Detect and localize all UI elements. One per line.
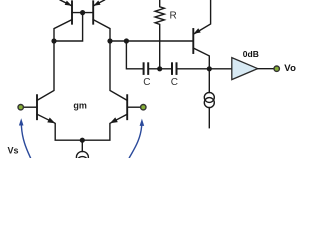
node: rail junction to C1 (124, 38, 129, 43)
node: between C1 and C2 (R tap) (157, 66, 162, 71)
transistor Q4 (left NPN of diff pair): base bar (36, 95, 38, 119)
node: output node (collector / C2 / source / buffer) (207, 66, 212, 71)
transistor Q2 collector wire (93, 20, 110, 41)
svg-text:R: R (170, 11, 177, 22)
wire: left rail down to Q4 collector (37, 41, 54, 100)
capacitor C1 left plate (143, 63, 145, 74)
wire: rail down to capacitor row (126, 41, 142, 69)
terminal input left (green) (18, 105, 23, 110)
wire: C2 to output node (177, 68, 210, 70)
arrow: Vs to left input (blue curved shaft) (21, 125, 30, 157)
resistor R (155, 0, 164, 69)
node: right rail junction (Q2 collector) (107, 38, 112, 43)
node: mirror base junction (80, 10, 85, 15)
wire: right rail down to Q5 collector (110, 41, 127, 100)
current source I2 upper circle (204, 92, 214, 102)
svg-text:gm: gm (73, 101, 87, 111)
node: left rail junction (51, 38, 56, 43)
terminal Vo (green) (274, 66, 279, 71)
wire: left input base (24, 106, 38, 108)
transistor Q1 emitter arrowhead (65, 1, 72, 6)
current source I2 lower circle (204, 98, 214, 108)
transistor Q5 emitter arrowhead (110, 117, 118, 123)
transistor Q4 emitter arrowhead (47, 118, 55, 124)
arrowhead: Vs left arrow (19, 118, 24, 125)
wire: signal rail from Q2 collector to Q3 base (110, 40, 192, 42)
terminal input right (green) (141, 105, 146, 110)
wire: output node to buffer input (209, 68, 232, 70)
svg-text:0dB: 0dB (243, 49, 259, 59)
transistor Q1 emitter wire (from top edge into bar) (60, 0, 71, 5)
node: diff pair tail (80, 138, 85, 143)
wire: buffer output (258, 68, 274, 70)
arrow: Vs to right input (blue curved shaft) (129, 125, 141, 157)
transistor Q2 emitter wire (from top edge into bar) (94, 0, 104, 5)
svg-text:C: C (143, 77, 150, 88)
transistor Q3 emitter wire (up to top edge) (195, 0, 211, 34)
transistor Q2 emitter arrowhead (93, 1, 100, 6)
transistor Q5 (right NPN of diff pair): base bar (126, 95, 128, 119)
wire: right input base (127, 106, 140, 108)
wire: Q1-Q2 base link (72, 12, 93, 14)
op-amp U1: unity-gain buffer triangle (232, 58, 258, 80)
transistor Q5 emitter wire (82, 114, 127, 140)
wire: mirror base down and left to left rail (54, 13, 83, 41)
transistor Q3 emitter arrowhead (194, 28, 201, 34)
transistor Q3 collector wire (193, 48, 209, 69)
transistor Q1 collector wire (54, 20, 72, 41)
wire: I2 bottom lead (208, 108, 210, 128)
svg-text:Vs: Vs (8, 146, 19, 156)
current source I1 (tail) upper circle (76, 151, 88, 163)
wire: tail down to current source I1 (81, 140, 83, 151)
capacitor C2 right plate (176, 63, 178, 74)
capacitor C2 left plate (171, 63, 173, 74)
transistor Q4 emitter wire (37, 114, 82, 140)
wire: node down to current source I2 (208, 69, 210, 93)
capacitor C1 right plate (147, 63, 149, 74)
svg-text:Vo: Vo (284, 63, 296, 74)
arrowhead: Vs right arrow (140, 119, 145, 126)
transistor Q3 (right PNP follower): base bar (192, 29, 194, 53)
transistor Q1 (top-left PNP of current mirror): base bar (71, 1, 73, 23)
transistor Q2 (top-right PNP of current mirror): base bar (92, 1, 94, 23)
svg-text:C: C (171, 77, 178, 88)
wire: C1 to mid node (148, 68, 172, 70)
current source I1 (tail) lower circle (cropped) (76, 157, 88, 169)
